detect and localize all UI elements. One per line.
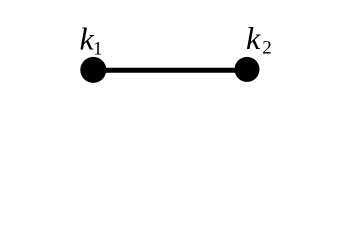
wire: edge connecting node k1 and node k2 [93,68,247,73]
node k2 (right vertex, filled circle) [235,57,260,82]
svg-text:1: 1 [93,38,103,59]
svg-text:k: k [246,20,261,56]
node k1 (left vertex, filled circle) [80,57,106,83]
svg-text:2: 2 [262,38,272,59]
